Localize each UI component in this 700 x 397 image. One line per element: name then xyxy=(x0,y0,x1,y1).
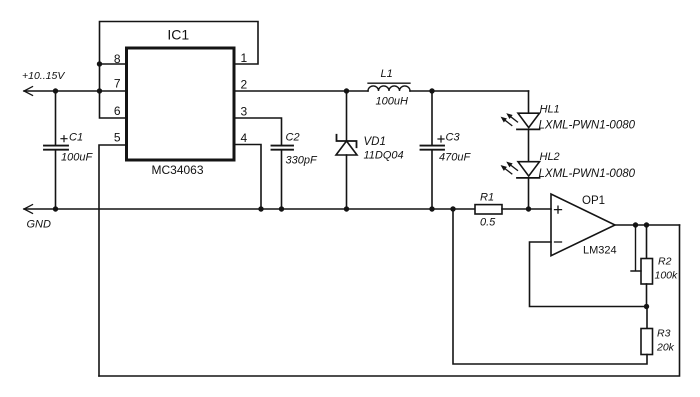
wire left vertical pins 8-7-6 xyxy=(100,64,127,118)
capacitor C2 xyxy=(272,146,294,209)
gnd arrow xyxy=(24,205,33,214)
svg-text:0.5: 0.5 xyxy=(480,217,496,229)
wire inverting input feedback xyxy=(530,242,648,307)
wire LED chain bottom xyxy=(528,178,530,209)
svg-text:3: 3 xyxy=(240,105,247,119)
wire pin 5 to bottom feedback xyxy=(99,145,127,376)
op-amp OP1 xyxy=(551,194,615,256)
svg-text:5: 5 xyxy=(114,130,121,144)
svg-text:R1: R1 xyxy=(480,192,494,204)
wire GND rail xyxy=(24,208,475,210)
wire output to pin 5 bottom rail xyxy=(99,225,680,376)
svg-text:330pF: 330pF xyxy=(286,155,318,167)
capacitor C3 xyxy=(421,91,445,209)
svg-text:100uF: 100uF xyxy=(61,151,93,163)
svg-text:MC34063: MC34063 xyxy=(151,163,203,177)
svg-text:4: 4 xyxy=(240,131,247,145)
wire +10..15V rail to pin 7 xyxy=(24,90,127,92)
svg-text:VD1: VD1 xyxy=(364,136,386,148)
IC1 body xyxy=(127,48,235,160)
svg-text:LM324: LM324 xyxy=(583,245,617,257)
capacitor C1 xyxy=(44,91,68,209)
svg-text:+10..15V: +10..15V xyxy=(22,70,65,82)
svg-text:OP1: OP1 xyxy=(582,195,605,207)
svg-text:R2: R2 xyxy=(658,256,672,268)
svg-text:R3: R3 xyxy=(657,328,671,340)
wire pin 4 down xyxy=(234,145,261,210)
wire top loop pin8-pin1 xyxy=(100,22,259,65)
LED HL2 xyxy=(502,162,540,178)
resistor R3 xyxy=(646,307,648,329)
svg-text:6: 6 xyxy=(114,104,121,118)
diode VD1 xyxy=(336,91,357,209)
svg-text:8: 8 xyxy=(114,52,121,66)
svg-text:2: 2 xyxy=(240,77,247,91)
svg-text:100k: 100k xyxy=(655,269,679,281)
wire op-amp output xyxy=(615,224,680,226)
svg-text:LXML-PWN1-0080: LXML-PWN1-0080 xyxy=(539,168,636,180)
resistor R1 xyxy=(475,205,502,214)
svg-text:C2: C2 xyxy=(286,132,300,144)
wire R3 bottom to GND side xyxy=(453,209,647,364)
wire between LEDs xyxy=(528,129,530,161)
svg-text:20k: 20k xyxy=(656,342,675,354)
svg-text:11DQ04: 11DQ04 xyxy=(364,149,404,161)
svg-text:C1: C1 xyxy=(69,132,83,144)
wire R1 to op-amp xyxy=(502,208,551,210)
supply arrow xyxy=(24,87,33,96)
svg-text:470uF: 470uF xyxy=(439,152,471,164)
wire pin 2 output rail xyxy=(234,90,529,92)
wire R2 top xyxy=(646,225,648,259)
svg-text:L1: L1 xyxy=(381,68,393,80)
wire R2 bottom xyxy=(646,284,648,307)
svg-text:HL1: HL1 xyxy=(540,103,560,115)
svg-text:7: 7 xyxy=(114,77,121,91)
svg-text:LXML-PWN1-0080: LXML-PWN1-0080 xyxy=(539,119,636,131)
LED HL1 xyxy=(502,113,540,129)
svg-text:C3: C3 xyxy=(446,132,461,144)
resistor R2 xyxy=(641,259,653,285)
svg-text:IC1: IC1 xyxy=(167,27,189,43)
wire LED chain top corner xyxy=(528,91,530,113)
svg-text:GND: GND xyxy=(27,219,52,231)
wire pin 3 to C2 xyxy=(234,118,282,145)
trimmer tap on R2 xyxy=(631,225,641,271)
inductor L1 xyxy=(368,83,410,91)
svg-text:1: 1 xyxy=(240,51,247,65)
svg-text:100uH: 100uH xyxy=(376,96,408,108)
svg-text:HL2: HL2 xyxy=(540,151,560,163)
